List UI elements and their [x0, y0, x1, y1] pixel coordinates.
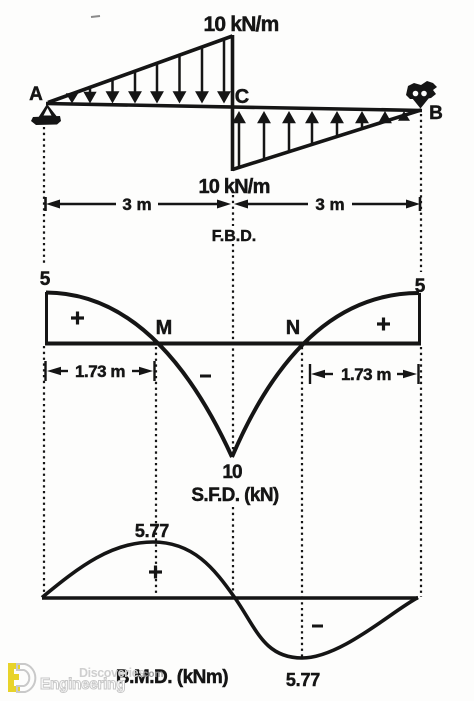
svg-text:S.F.D. (kN): S.F.D. (kN) [191, 485, 279, 506]
SFD minus sign [200, 375, 211, 378]
svg-text:.com: .com [140, 669, 163, 680]
svg-text:F.B.D.: F.B.D. [212, 228, 256, 245]
dimension line 3 m (right) [246, 197, 420, 211]
watermark logo D [17, 664, 35, 692]
dotted construction line at M [155, 347, 157, 596]
dimension line 1.73 m (right) [310, 364, 419, 384]
SFD plus sign right [377, 318, 390, 331]
stray scan mark top [91, 16, 100, 17]
svg-text:B: B [429, 103, 443, 124]
support B (roller, above beam) [406, 81, 437, 109]
dotted construction line below B (lower part) [420, 347, 422, 597]
BMD minus sign [312, 625, 323, 628]
support A (pin) [31, 104, 61, 125]
load line at C (vertical) [231, 35, 235, 171]
wire arrow d4 [130, 70, 140, 101]
dimension line 3 m (left) [46, 197, 221, 211]
SFD curve right (C to B) [232, 293, 419, 457]
svg-text:M: M [156, 317, 173, 339]
SFD left edge [45, 292, 48, 345]
svg-text:Engineering: Engineering [40, 676, 125, 693]
wire arrow d7 [197, 46, 207, 101]
SFD plus sign left [71, 312, 84, 325]
wire arrow d6 [175, 54, 185, 101]
load hypotenuse C to B (right triangle) [233, 110, 422, 170]
dotted construction line below A (lower part) [43, 346, 45, 595]
wire arrow u2 [259, 114, 269, 161]
svg-text:10 kN/m: 10 kN/m [204, 13, 279, 36]
load hypotenuse A to C (left triangle) [48, 36, 233, 103]
dotted construction line at N [301, 347, 303, 657]
wire arrow u5 [332, 114, 342, 138]
wire arrow u8 [400, 114, 408, 120]
svg-text:5.77: 5.77 [135, 521, 169, 541]
svg-text:10: 10 [222, 462, 242, 483]
svg-text:3 m: 3 m [315, 195, 344, 214]
wire arrow u6 [357, 114, 367, 130]
SFD curve left (A to C) [46, 293, 232, 458]
BMD zero axis [42, 596, 418, 599]
BMD plus sign [149, 566, 162, 579]
svg-text:5.77: 5.77 [286, 670, 320, 690]
wire arrow u7 [380, 114, 390, 123]
svg-text:A: A [29, 84, 43, 105]
svg-text:10 kN/m: 10 kN/m [198, 176, 269, 198]
svg-text:N: N [286, 317, 300, 339]
dotted construction line at C (upper) [232, 195, 234, 226]
left load arrows (downward) [68, 38, 229, 101]
svg-text:C: C [235, 86, 249, 108]
right load arrows (upward) [234, 114, 408, 169]
wire arrow d3 [108, 78, 118, 101]
svg-text:1.73 m: 1.73 m [341, 365, 391, 384]
SFD right edge [418, 293, 421, 345]
wire arrow d2 [86, 86, 95, 101]
wire arrow d5 [152, 62, 162, 101]
wire arrow u4 [307, 114, 317, 146]
svg-text:5: 5 [40, 269, 51, 290]
dotted construction line below A [43, 127, 45, 266]
wire arrow d1 [68, 92, 76, 101]
watermark Engineering Discoveries logo E [8, 663, 20, 692]
dotted construction line at C (middle) [232, 244, 234, 453]
dotted construction line at C (lower) [232, 507, 234, 597]
wire arrow u1 [234, 114, 244, 169]
svg-text:1.73 m: 1.73 m [75, 362, 125, 381]
SFD zero axis [45, 342, 421, 346]
dimension line 1.73 m (left) [46, 361, 155, 381]
wire arrow d8 [219, 38, 229, 101]
dotted construction line below B [420, 114, 422, 272]
beam AB [46, 104, 422, 111]
wire arrow u3 [284, 114, 294, 153]
svg-text:3 m: 3 m [122, 195, 151, 214]
BMD curve [42, 542, 418, 658]
